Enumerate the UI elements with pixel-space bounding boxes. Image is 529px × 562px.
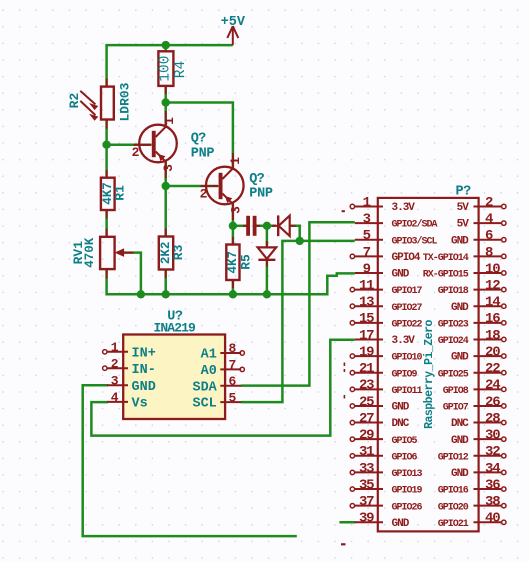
svg-text:R1: R1 <box>112 185 127 201</box>
svg-text:PNP: PNP <box>249 187 273 202</box>
svg-text:3.3V: 3.3V <box>392 202 416 214</box>
P? pin 5 (GPIO3/SCL) <box>355 228 438 247</box>
svg-text:470K: 470K <box>83 237 97 268</box>
P? pin 30 (GND) <box>451 428 506 447</box>
wire D1 anode to SCL node <box>290 226 300 241</box>
svg-text:GPIO10: GPIO10 <box>392 353 423 364</box>
svg-text:GPIO13: GPIO13 <box>392 469 423 480</box>
P? pin 32 (GPIO12) <box>438 444 506 463</box>
wire stub P? pin39 GND <box>339 521 355 524</box>
svg-text:RX-GPIO15: RX-GPIO15 <box>423 270 469 281</box>
junction R5 on GND rail <box>229 290 237 298</box>
wire SDA net IC pin6 to P? pin3 <box>241 222 355 385</box>
svg-text:Q?: Q? <box>249 172 264 187</box>
P? pin 7 (GPIO4) <box>350 245 421 264</box>
P? pin 13 (GPIO27) <box>350 295 422 314</box>
svg-text:19: 19 <box>359 344 374 360</box>
P? pin 37 (GPIO26) <box>350 494 422 513</box>
wire RV1 bottom + GND rail <box>107 269 355 294</box>
svg-text:GPIO23: GPIO23 <box>438 319 469 330</box>
svg-text:5: 5 <box>229 390 237 405</box>
P? pin 27 (DNC) <box>350 411 410 430</box>
svg-text:13: 13 <box>359 295 374 311</box>
svg-text:23: 23 <box>359 378 374 394</box>
junction Q2 collector / R5 / C1 <box>229 222 237 230</box>
svg-text:12: 12 <box>485 278 500 294</box>
photoresistor R2 (LDR03) <box>67 79 133 129</box>
svg-text:18: 18 <box>485 328 500 344</box>
svg-text:10: 10 <box>485 261 500 277</box>
svg-text:GND: GND <box>451 235 469 247</box>
svg-text:2: 2 <box>111 356 119 371</box>
svg-text:GPIO9: GPIO9 <box>392 369 418 380</box>
P? pin 19 (GPIO10) <box>350 344 422 363</box>
svg-text:3: 3 <box>363 212 371 228</box>
svg-text:GND: GND <box>132 380 156 395</box>
resistor R4 (100) <box>158 51 190 94</box>
+5V supply symbol <box>221 15 246 45</box>
wire C1 right to node <box>256 225 276 228</box>
wire Q2 collector node to C1 <box>233 225 247 228</box>
svg-text:9: 9 <box>363 261 371 277</box>
P? pin 4 (5V) <box>457 212 506 231</box>
svg-text:6: 6 <box>485 228 493 244</box>
svg-text:11: 11 <box>359 278 374 294</box>
svg-text:100: 100 <box>158 56 174 82</box>
svg-text:GPIO11: GPIO11 <box>392 386 423 397</box>
svg-text:20: 20 <box>485 344 500 360</box>
transistor Q1 (PNP) <box>132 111 215 178</box>
svg-text:Q?: Q? <box>191 132 206 147</box>
svg-text:30: 30 <box>485 428 500 444</box>
resistor R1 (4K7) <box>101 170 128 219</box>
svg-text:21: 21 <box>359 361 374 377</box>
svg-text:33: 33 <box>359 461 374 477</box>
svg-text:1: 1 <box>363 195 371 211</box>
svg-text:2: 2 <box>485 195 493 211</box>
svg-text:6: 6 <box>229 374 237 389</box>
svg-text:GPIO20: GPIO20 <box>438 502 469 513</box>
svg-text:27: 27 <box>359 411 374 427</box>
P? pin 23 (GPIO11) <box>350 378 422 397</box>
wire R5 bottom to GND rail <box>232 280 235 294</box>
svg-text:1: 1 <box>228 157 243 165</box>
svg-text:5V: 5V <box>457 202 470 214</box>
svg-text:GND: GND <box>451 352 469 364</box>
svg-text:5V: 5V <box>457 219 470 231</box>
P? pin 39 (GND) <box>355 511 410 530</box>
P? pin 24 (GPIO8) <box>443 378 506 397</box>
svg-text:2: 2 <box>132 145 140 160</box>
svg-text:Raspberry_Pi_Zero: Raspberry_Pi_Zero <box>423 319 436 428</box>
P? pin 26 (GPIO7) <box>443 394 506 413</box>
wire R4 top stub <box>164 45 167 51</box>
svg-text:3: 3 <box>161 164 176 172</box>
wire Q1 emitter up <box>164 103 167 129</box>
P? pin 8 (TX-GPIO14) <box>423 245 506 264</box>
svg-text:GPIO21: GPIO21 <box>438 519 469 530</box>
P? pin 10 (RX-GPIO15) <box>423 261 506 280</box>
P? pin 34 (GND) <box>451 461 506 480</box>
P? pin 40 (GPIO21) <box>438 511 506 530</box>
IC U? (INA219 current-sense amplifier) <box>103 310 245 420</box>
svg-text:17: 17 <box>359 328 374 344</box>
resistor R3 (2K2) <box>159 229 186 279</box>
svg-text:GND: GND <box>392 402 410 414</box>
svg-text:28: 28 <box>485 411 500 427</box>
svg-text:1: 1 <box>162 117 177 125</box>
svg-text:INA219: INA219 <box>154 320 197 335</box>
svg-text:GPIO8: GPIO8 <box>443 386 469 397</box>
P? pin 38 (GPIO20) <box>438 494 506 513</box>
svg-text:3.3V: 3.3V <box>392 335 416 347</box>
junction SCL node <box>296 237 304 245</box>
junction Q1 base node <box>102 141 110 149</box>
connector P? (Raspberry_Pi_Zero) <box>378 185 479 532</box>
svg-text:IN+: IN+ <box>132 346 156 361</box>
svg-text:GPIO25: GPIO25 <box>438 369 469 380</box>
junction R3 on GND rail <box>162 290 170 298</box>
svg-text:37: 37 <box>359 494 374 510</box>
wire R2 bottom to R1 top (node base Q1) <box>105 120 108 178</box>
P? pin 2 (5V) <box>457 195 506 214</box>
svg-text:3: 3 <box>228 206 243 214</box>
svg-text:39: 39 <box>359 511 374 527</box>
svg-text:GND: GND <box>451 468 469 480</box>
svg-text:32: 32 <box>485 444 500 460</box>
diode D2 (points down) <box>258 241 277 267</box>
svg-text:R2: R2 <box>67 93 82 109</box>
svg-text:GND: GND <box>392 518 410 530</box>
svg-text:GPIO27: GPIO27 <box>392 303 423 314</box>
P? pin 1 (3.3V) <box>350 195 415 214</box>
svg-text:5: 5 <box>363 228 371 244</box>
svg-text:P?: P? <box>456 185 472 200</box>
wire R3 bottom to GND rail <box>164 270 167 295</box>
svg-text:2: 2 <box>200 187 208 202</box>
wire node to D2 zener top <box>266 226 269 247</box>
P? pin 11 (GPIO17) <box>350 278 422 297</box>
svg-text:GPIO3/SCL: GPIO3/SCL <box>392 235 438 247</box>
svg-text:GPIO5: GPIO5 <box>392 436 418 447</box>
junction +5V/R4 <box>162 41 170 49</box>
wire D2 bottom to GND rail <box>266 261 269 294</box>
svg-text:A0: A0 <box>201 364 217 379</box>
wire R4 bottom to node <box>164 86 167 103</box>
svg-text:LDR03: LDR03 <box>117 82 132 121</box>
svg-text:4: 4 <box>485 212 493 228</box>
stray dash bottom near P? <box>341 543 346 545</box>
svg-text:7: 7 <box>363 245 371 261</box>
svg-text:SDA: SDA <box>192 380 217 395</box>
svg-text:8: 8 <box>485 245 493 261</box>
svg-text:GPIO24: GPIO24 <box>438 336 469 347</box>
P? pin 12 (GPIO18) <box>438 278 506 297</box>
P? pin 6 (GND) <box>451 228 506 247</box>
svg-text:25: 25 <box>359 394 374 410</box>
svg-text:GPIO6: GPIO6 <box>392 452 418 463</box>
svg-text:IN-: IN- <box>132 363 156 378</box>
P? pin 20 (GND) <box>451 344 506 363</box>
svg-text:GPIO18: GPIO18 <box>438 286 469 297</box>
svg-text:GPIO4: GPIO4 <box>392 252 421 264</box>
resistor R5 (4K7) <box>226 237 254 288</box>
P? pin 15 (GPIO22) <box>350 311 422 330</box>
svg-text:+5V: +5V <box>221 15 246 30</box>
P? pin 29 (GPIO5) <box>350 428 417 447</box>
P? pin 17 (3.3V) <box>355 328 416 347</box>
transistor Q2 (PNP) <box>200 153 273 220</box>
svg-text:GPIO19: GPIO19 <box>392 486 423 497</box>
svg-text:4: 4 <box>111 390 119 405</box>
svg-text:26: 26 <box>485 394 500 410</box>
svg-text:24: 24 <box>485 378 500 394</box>
svg-text:22: 22 <box>485 361 500 377</box>
svg-text:15: 15 <box>359 311 374 327</box>
svg-text:GPIO12: GPIO12 <box>438 452 469 463</box>
svg-text:GPIO2/SDA: GPIO2/SDA <box>392 219 438 231</box>
wire SCL net IC pin5 to P? pin5 <box>241 241 355 402</box>
stray dash near P? pin 1 <box>342 210 345 212</box>
svg-text:34: 34 <box>485 461 500 477</box>
P? pin 28 (DNC) <box>451 411 506 430</box>
svg-text:14: 14 <box>485 295 500 311</box>
svg-text:36: 36 <box>485 477 500 493</box>
svg-text:GND: GND <box>451 302 469 314</box>
P? pin 22 (GPIO25) <box>438 361 506 380</box>
wire Q1 collector down to R3 <box>164 161 167 237</box>
wire GND net IC pin3 <box>83 385 297 536</box>
svg-text:GND: GND <box>392 269 410 281</box>
svg-text:DNC: DNC <box>392 418 410 430</box>
svg-text:1: 1 <box>111 340 119 355</box>
svg-text:3: 3 <box>111 374 119 389</box>
wire Q1 base <box>107 143 151 146</box>
svg-text:SCL: SCL <box>192 397 216 412</box>
svg-text:R4: R4 <box>173 61 189 78</box>
wire node R4 to Q2 emitter <box>166 103 233 169</box>
svg-text:7: 7 <box>229 358 237 373</box>
stray dashes left of P? pins <box>343 363 345 399</box>
svg-text:38: 38 <box>485 494 500 510</box>
svg-text:8: 8 <box>229 341 237 356</box>
P? pin 14 (GND) <box>451 295 506 314</box>
wire Vs net IC pin4 to P? pin17 (3.3V) <box>91 340 354 436</box>
P? pin 25 (GND) <box>350 394 410 413</box>
svg-text:29: 29 <box>359 428 374 444</box>
svg-text:GPIO7: GPIO7 <box>443 403 469 414</box>
junction C1 / D1 / D2 <box>263 222 271 230</box>
wire R1 bottom to RV1 top <box>105 211 108 237</box>
P? pin 18 (GPIO24) <box>438 328 506 347</box>
P? pin 3 (GPIO2/SDA) <box>355 212 438 231</box>
P? pin 36 (GPIO16) <box>438 477 506 496</box>
svg-text:GPIO26: GPIO26 <box>392 502 423 513</box>
wire Q2 collector down to R5 <box>232 203 235 245</box>
svg-text:GND: GND <box>451 435 469 447</box>
svg-text:R3: R3 <box>171 244 186 260</box>
P? pin 21 (GPIO9) <box>350 361 417 380</box>
svg-text:PNP: PNP <box>191 147 215 162</box>
svg-text:GPIO17: GPIO17 <box>392 286 423 297</box>
svg-text:35: 35 <box>359 477 374 493</box>
svg-text:TX-GPIO14: TX-GPIO14 <box>423 253 469 264</box>
P? pin 16 (GPIO23) <box>438 311 506 330</box>
P? pin 9 (GND) <box>355 261 410 280</box>
wire +5V rail top <box>107 45 233 87</box>
svg-text:GPIO22: GPIO22 <box>392 319 423 330</box>
P? pin 33 (GPIO13) <box>350 461 422 480</box>
svg-text:R5: R5 <box>238 254 253 270</box>
junction Q1 collector / Q2 base / R3 <box>162 182 170 190</box>
junction R4 bottom node <box>162 98 170 106</box>
junction D2 on GND rail <box>263 290 271 298</box>
junction RV1 wiper on GND rail <box>137 290 145 298</box>
P? pin 31 (GPIO6) <box>350 444 417 463</box>
svg-text:Vs: Vs <box>132 397 148 412</box>
diode D1 (points left) <box>272 215 296 236</box>
wire RV1 wiper to GND rail <box>124 253 141 295</box>
svg-text:40: 40 <box>485 511 500 527</box>
svg-text:31: 31 <box>359 444 374 460</box>
wire Q2 base <box>166 185 218 188</box>
svg-text:A1: A1 <box>201 348 217 363</box>
capacitor C1 <box>243 216 260 235</box>
potentiometer RV1 (470K) <box>71 229 134 279</box>
P? pin 35 (GPIO19) <box>350 477 422 496</box>
svg-text:16: 16 <box>485 311 500 327</box>
svg-text:DNC: DNC <box>451 418 469 430</box>
svg-text:GPIO16: GPIO16 <box>438 486 469 497</box>
